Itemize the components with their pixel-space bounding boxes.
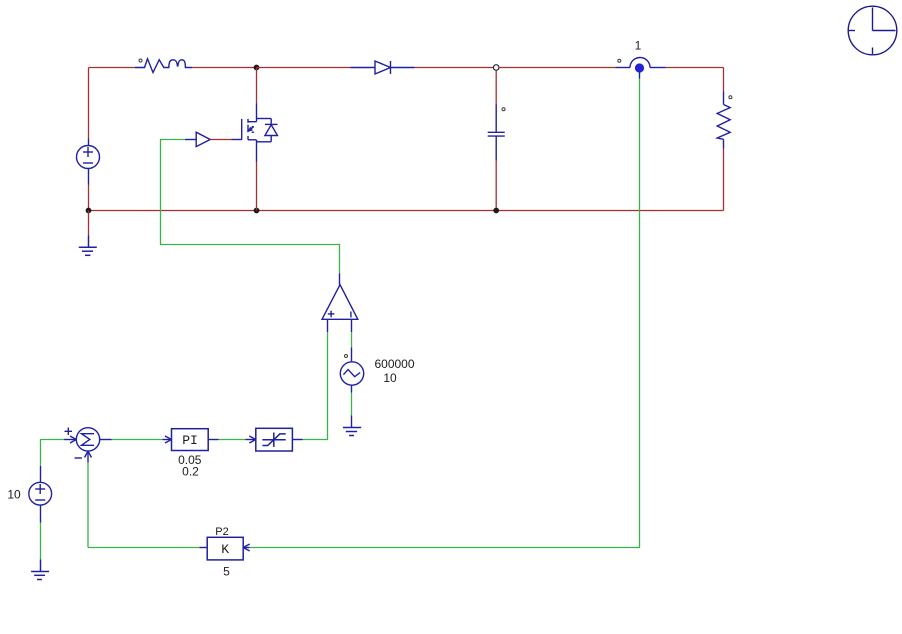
node A open circle output node — [493, 65, 499, 71]
gate driver buffer — [185, 132, 242, 146]
resistor R1 load — [717, 92, 732, 149]
label 600000 of carrier — [374, 357, 414, 371]
wire cap bottom red — [495, 161, 497, 211]
inductor-resistor RL branch L1 — [135, 59, 192, 73]
source VREF DC 10 — [29, 466, 52, 523]
label 10 of VREF — [7, 488, 21, 502]
wire cap top red — [495, 70, 497, 104]
label minus of summer — [75, 457, 83, 459]
wire current sense green vertical — [250, 73, 640, 548]
sine source carrier VTRI — [340, 355, 363, 393]
wire top rail to drain node — [192, 67, 257, 69]
wire summer bottom green — [87, 463, 89, 548]
label P2 — [215, 526, 228, 538]
wire VREF down to ground green — [40, 523, 42, 560]
wire VREF up to summer green — [41, 440, 65, 467]
current sensor ISEN1 — [616, 58, 666, 73]
voltage source VDC1 — [77, 139, 100, 185]
wire summer output green — [112, 439, 163, 441]
transistor Q1 MOSFET with body diode — [242, 119, 278, 142]
ground main — [79, 236, 97, 256]
capacitor C1 — [488, 105, 505, 161]
node junction dot at drain top — [254, 65, 260, 71]
svg-text:P2: P2 — [215, 526, 228, 538]
block PI controller — [163, 429, 209, 451]
block limiter — [246, 428, 293, 451]
wire top rail right segment — [666, 67, 724, 69]
wire source top to rail — [88, 68, 90, 139]
label plus of comparator — [328, 311, 335, 318]
wire source bottom to rail — [88, 185, 90, 211]
wire diode to output node — [415, 67, 494, 69]
wire bottom rail — [89, 210, 724, 212]
svg-text:10: 10 — [7, 488, 21, 502]
label minus tick of comparator — [350, 312, 352, 318]
label 1 of current sensor — [635, 39, 642, 53]
wire top rail left segment — [89, 67, 136, 69]
ground VREF — [31, 560, 49, 580]
svg-text:10: 10 — [383, 371, 397, 385]
wire output node to current sensor — [499, 67, 616, 69]
svg-text:1: 1 — [635, 39, 642, 53]
wire comparator minus to carrier — [351, 332, 353, 361]
label 0.05 — [178, 453, 202, 467]
svg-text:K: K — [221, 542, 229, 557]
svg-text:PI: PI — [182, 433, 198, 448]
wire limiter output green — [292, 439, 302, 441]
diode D1 — [351, 61, 415, 74]
wire source vertical — [256, 140, 258, 211]
label 0.2 — [182, 464, 199, 478]
svg-text:0.2: 0.2 — [182, 464, 199, 478]
label 10 of carrier — [383, 371, 397, 385]
label plus of summer — [65, 428, 73, 436]
ground carrier — [343, 428, 361, 436]
node junction dot left bottom — [86, 208, 92, 214]
block K gain P2 — [200, 537, 250, 560]
wire drain vertical — [256, 68, 258, 122]
wire gate red segment — [210, 139, 231, 141]
svg-text:5: 5 — [223, 565, 230, 579]
wire comparator plus input green — [303, 332, 328, 440]
wire carrier to ground green — [351, 393, 353, 428]
node junction dot cap bottom — [493, 208, 499, 214]
wire right rail down to bottom rail — [723, 149, 725, 211]
wire top rail to diode — [257, 67, 351, 69]
label PI — [182, 433, 198, 448]
wire down to ground — [88, 211, 90, 236]
wire gate control green path — [161, 140, 340, 274]
wire K output green — [88, 547, 200, 549]
label 5 of K — [223, 565, 230, 579]
wire right rail down to load — [723, 68, 725, 92]
node junction dot mosfet bottom — [254, 208, 260, 214]
wire PI to limiter green — [208, 439, 245, 441]
clock icon — [848, 6, 897, 55]
label K — [221, 542, 229, 557]
comparator U1 — [322, 274, 358, 333]
summing junction S1 — [64, 428, 112, 463]
svg-text:600000: 600000 — [374, 357, 414, 371]
